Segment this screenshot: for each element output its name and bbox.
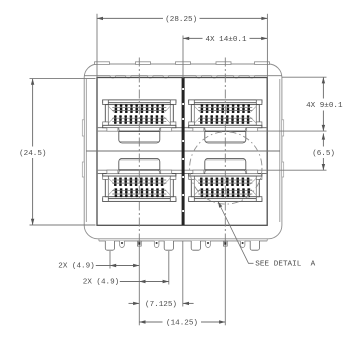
side rivet bumps xyxy=(82,120,84,136)
connector port top-left xyxy=(103,100,176,143)
detail A circle xyxy=(190,132,262,204)
mid divider line xyxy=(86,150,280,152)
mounting posts xyxy=(105,241,114,250)
extension lines xyxy=(96,14,98,78)
EMI spring notches xyxy=(110,76,116,78)
connector port bottom-right xyxy=(189,158,262,201)
cage inner box xyxy=(97,78,267,226)
dim (28.25) xyxy=(97,17,163,19)
svg-text:(24.5): (24.5) xyxy=(19,150,46,158)
svg-text:4X 14±0.1: 4X 14±0.1 xyxy=(205,36,246,44)
dim 4X 14±0.1 xyxy=(183,37,203,39)
dim (6.5) xyxy=(322,133,324,146)
cage outer frame xyxy=(84,64,282,239)
svg-text:(6.5): (6.5) xyxy=(312,150,335,158)
bottom lip xyxy=(99,240,267,242)
connector port top-right xyxy=(189,100,262,143)
dim (14.25) xyxy=(139,321,162,323)
svg-text:2X (4.9): 2X (4.9) xyxy=(58,262,94,270)
port centerline right xyxy=(224,58,226,247)
svg-text:SEE DETAIL A: SEE DETAIL A xyxy=(255,261,315,269)
shelf lines xyxy=(98,127,267,129)
dim 2X (4.9) upper xyxy=(96,265,140,267)
top edge tabs xyxy=(95,62,110,65)
svg-text:(14.25): (14.25) xyxy=(166,320,198,328)
frame inner side lines xyxy=(85,79,87,222)
svg-text:2X (4.9): 2X (4.9) xyxy=(83,279,119,287)
svg-text:(28.25): (28.25) xyxy=(165,16,197,24)
bezel fold line top xyxy=(84,75,282,77)
svg-text:(7.125): (7.125) xyxy=(145,301,177,309)
center divider wall xyxy=(182,78,185,226)
see detail A leader xyxy=(218,202,254,264)
dim 4X 9±0.1 xyxy=(322,77,324,98)
port centerline left xyxy=(138,58,140,247)
svg-text:4X 9±0.1: 4X 9±0.1 xyxy=(306,102,343,110)
dim (7.125) xyxy=(129,302,140,304)
dim 2X (4.9) lower xyxy=(120,281,169,283)
small pins xyxy=(120,241,125,248)
center pegs xyxy=(137,241,141,246)
dim (24.5) xyxy=(32,79,34,147)
connector port bottom-left xyxy=(103,158,176,201)
